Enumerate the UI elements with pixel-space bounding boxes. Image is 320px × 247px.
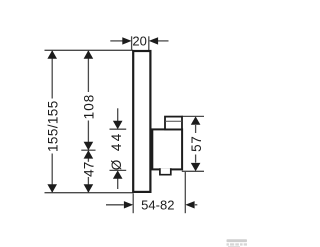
cap lip line [165,120,182,122]
svg-text:Ø 44: Ø 44 [109,131,124,170]
arrow down dia44 top [113,121,123,129]
wire dia44 line lower [117,178,119,190]
wire dim47 line lower [87,177,89,193]
wire dim47 line upper [87,150,89,162]
svg-text:57: 57 [189,136,204,152]
arrow up at top of 108 line [84,50,94,58]
svg-text:20: 20 [132,33,146,48]
wire dim20 left ext [131,36,133,51]
wire top extension line [45,49,134,51]
wire dim5482 right tail [195,204,198,206]
wire dia44 bottom tick [110,169,127,171]
knob body [152,129,182,169]
svg-text:108: 108 [81,94,96,120]
wire dim57 line upper [195,125,197,133]
plate (side view) [133,51,150,192]
wire dim57 bottom extension [182,170,204,172]
arrow down at bottom of 47 line [84,184,94,192]
wire dim57 line lower [195,155,197,163]
svg-text:54-82: 54-82 [141,198,174,213]
wire dia44 line upper [117,108,119,122]
arrow down at mid tick (108) [84,142,94,150]
watermark logo bottom right [227,239,248,247]
arrow right dim20 left [122,37,131,44]
wire dim57 top extension [182,115,205,117]
wire dim155 line lower [51,154,53,193]
wire dim5482 left ext [132,193,134,213]
wire dia44 top tick [110,128,127,130]
wire dim5482 left tail [106,204,124,206]
arrow left dim20 right [149,37,158,44]
arrow left dim5482 right [185,201,194,208]
wire bottom baseline extension [45,192,134,194]
arrow up at mid tick (47) [84,150,94,158]
arrow down at bottom of 155 line [47,184,57,192]
wire dim20 right tail [158,40,169,42]
svg-text:47: 47 [81,162,96,177]
wire dim20 right ext [148,36,150,51]
arrow up at top of 155 line [47,50,57,58]
arrow right dim5482 left [124,201,133,208]
wire mid tick [81,149,95,151]
arrow down dim57 bottom [191,163,201,171]
bottom tab [160,169,171,175]
svg-text:155/155: 155/155 [45,100,60,152]
wire dim108 line upper [87,50,89,92]
wire dim5482 right ext [184,171,186,213]
arrow up dim57 top [191,116,201,124]
arrow up dia44 bottom [113,170,123,178]
wire dim155 line upper [51,50,53,98]
cap step [165,117,182,130]
wire dim108 line lower [87,121,89,151]
wire dim20 left tail [110,40,122,42]
